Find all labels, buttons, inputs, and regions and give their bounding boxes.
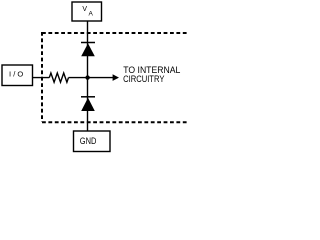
- dashed IC boundary top edge: [42, 32, 188, 34]
- terminal GND box: [74, 131, 111, 152]
- terminal I/O box: [2, 65, 33, 86]
- svg-text:A: A: [89, 10, 94, 17]
- terminal VA box: [72, 2, 102, 21]
- label VA: [82, 6, 93, 18]
- svg-text:GND: GND: [80, 136, 97, 146]
- wire VA to GND vertical rail: [87, 21, 89, 131]
- wire I/O box to resistor: [33, 77, 49, 79]
- svg-text:I / O: I / O: [9, 70, 24, 79]
- dashed IC boundary left edge: [41, 32, 43, 122]
- label TO INTERNAL CIRCUITRY: [123, 65, 180, 84]
- diode D2 (GND to I/O node): [81, 97, 95, 111]
- diode D1 (I/O node to VA): [81, 43, 95, 57]
- svg-text:V: V: [82, 6, 87, 13]
- wire resistor to node and arrow to internal circuitry: [69, 74, 120, 81]
- resistor (series protection): [49, 73, 68, 82]
- dashed IC boundary bottom edge: [42, 121, 188, 123]
- svg-text:CIRCUITRY: CIRCUITRY: [123, 74, 164, 84]
- node junction dot: [85, 75, 89, 79]
